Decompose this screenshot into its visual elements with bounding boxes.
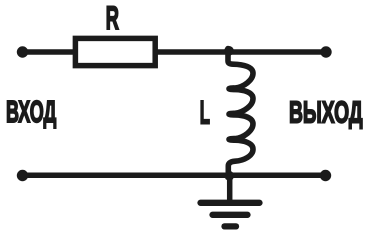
node input terminal top-left (17, 46, 28, 57)
node junction top (224, 46, 234, 56)
node junction bottom (224, 171, 234, 181)
resistor R (75, 38, 155, 65)
node terminal bottom-left (17, 170, 28, 181)
node terminal bottom-right (320, 170, 331, 181)
svg-text:ВХОД: ВХОД (6, 94, 56, 129)
wire bottom horizontal (23, 173, 326, 179)
svg-text:ВЫХОД: ВЫХОД (289, 94, 363, 129)
node output terminal top-right (320, 46, 331, 57)
inductor L coil (228, 49, 253, 174)
wire top horizontal (23, 49, 327, 55)
ground (201, 176, 260, 226)
svg-text:R: R (106, 0, 119, 36)
svg-text:L: L (200, 94, 210, 130)
